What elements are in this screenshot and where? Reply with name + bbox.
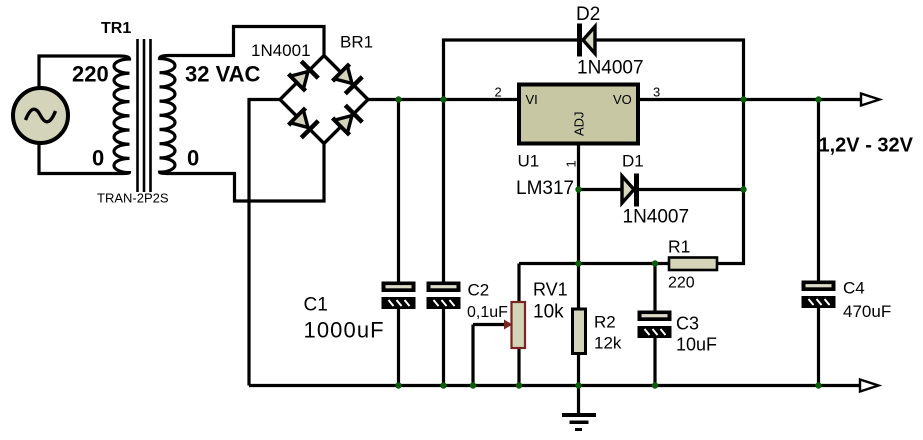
svg-text:220: 220 [72,62,109,87]
svg-text:RV1: RV1 [533,280,568,300]
svg-text:1N4001: 1N4001 [251,41,311,60]
svg-text:C4: C4 [843,279,865,298]
svg-text:1000uF: 1000uF [304,318,385,343]
svg-text:R2: R2 [594,313,616,332]
svg-text:C3: C3 [676,314,699,334]
svg-text:0: 0 [187,146,199,171]
svg-text:470uF: 470uF [843,302,891,321]
svg-text:1: 1 [564,160,579,167]
svg-text:0: 0 [92,146,104,171]
svg-text:VO: VO [613,92,632,107]
svg-text:TR1: TR1 [101,20,131,37]
svg-text:TRAN-2P2S: TRAN-2P2S [97,191,169,206]
svg-text:VI: VI [526,92,538,107]
svg-text:0,1uF: 0,1uF [467,304,508,321]
svg-text:3: 3 [653,85,660,100]
svg-text:1,2V - 32V: 1,2V - 32V [819,135,914,157]
svg-text:U1: U1 [518,152,540,171]
svg-text:10k: 10k [533,302,564,323]
svg-text:C2: C2 [468,281,490,300]
svg-text:1N4007: 1N4007 [623,207,690,228]
svg-text:32 VAC: 32 VAC [185,62,261,87]
svg-text:220: 220 [668,275,695,292]
svg-text:D1: D1 [622,152,644,171]
svg-text:ADJ: ADJ [572,111,587,136]
svg-text:R1: R1 [668,237,690,257]
svg-text:1N4007: 1N4007 [577,58,644,79]
svg-text:BR1: BR1 [340,33,373,52]
svg-text:D2: D2 [576,4,600,25]
svg-text:LM317: LM317 [516,178,574,199]
svg-text:12k: 12k [594,334,622,353]
svg-text:C1: C1 [304,295,328,316]
svg-text:10uF: 10uF [676,335,717,355]
svg-text:2: 2 [495,85,502,100]
